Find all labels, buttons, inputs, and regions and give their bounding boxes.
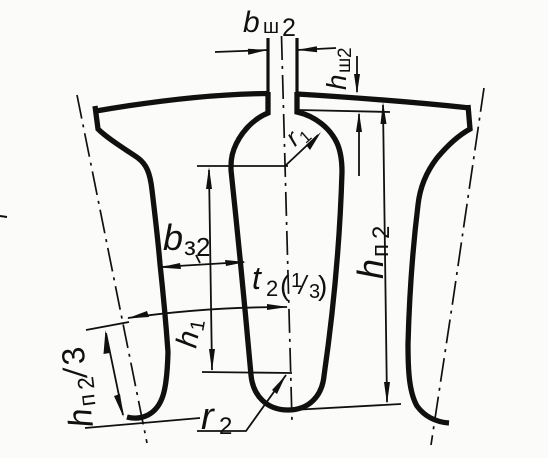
svg-text:2: 2 xyxy=(368,226,395,239)
central slot contour (pear-shaped slot with opening) xyxy=(231,92,342,410)
svg-text:ш: ш xyxy=(263,16,279,38)
svg-text:2: 2 xyxy=(196,232,210,262)
dimension b_sh2 line right xyxy=(297,48,336,50)
dimension h_p2/3 line xyxy=(106,333,123,415)
extension line at r1 center level xyxy=(197,165,288,167)
svg-text:2: 2 xyxy=(282,14,296,42)
svg-text:(: ( xyxy=(280,270,290,301)
dimension h_sh2 upper arrow xyxy=(356,56,358,92)
right slot contour (left side of right rotor slot) xyxy=(408,105,470,423)
leader, shelf and label r_2 xyxy=(197,375,286,431)
stray mark at left edge xyxy=(0,216,7,217)
slot opening left wall extension xyxy=(266,38,269,95)
svg-text:h: h xyxy=(350,259,391,279)
dimension h_p2 line xyxy=(383,105,387,402)
svg-text:b: b xyxy=(243,6,260,39)
label h_sh2 (rotated) xyxy=(321,47,356,90)
dimension b_sh2 line left xyxy=(215,50,268,52)
extension line top (1/3 level) xyxy=(86,322,129,330)
central slot axis (dash-dot) xyxy=(282,36,293,421)
extension line at opening bottom xyxy=(299,110,390,112)
dimension t_2(1/3) arc xyxy=(128,307,287,318)
dimension h_1 line xyxy=(209,170,212,370)
rotor surface arc right segment xyxy=(297,94,470,108)
dimension h_sh2 lower arrow xyxy=(358,114,360,176)
left slot contour (right side of left rotor slot) xyxy=(95,106,168,418)
svg-text:2: 2 xyxy=(219,413,232,440)
svg-text:b: b xyxy=(163,217,183,258)
svg-text:2: 2 xyxy=(335,47,356,58)
extension line at slot bottom right xyxy=(292,404,401,410)
label b_z2 with tick xyxy=(196,255,200,263)
svg-text:п: п xyxy=(367,244,394,257)
svg-text:t: t xyxy=(252,260,262,296)
svg-text:h: h xyxy=(321,74,352,90)
label h_1 (rotated) xyxy=(170,316,210,351)
rotor surface arc left segment xyxy=(96,94,268,112)
slot opening right wall extension xyxy=(295,38,298,95)
svg-text:ш: ш xyxy=(334,58,355,73)
svg-text:з: з xyxy=(184,231,196,261)
dimension b_z2 line xyxy=(161,262,244,267)
label h_p2 (rotated) xyxy=(350,226,395,279)
svg-text:): ) xyxy=(318,270,327,301)
svg-text:r: r xyxy=(201,396,215,438)
leader and label r_1 xyxy=(285,135,318,166)
label h_p2/3 (rotated) xyxy=(53,344,104,429)
svg-text:2: 2 xyxy=(266,276,278,301)
extension line at r2 center level xyxy=(202,372,292,373)
left slot axis (dash-dot) xyxy=(77,95,147,443)
extension line bottom (slot bottom left) xyxy=(85,418,200,428)
right slot axis (dash-dot) xyxy=(431,88,484,445)
